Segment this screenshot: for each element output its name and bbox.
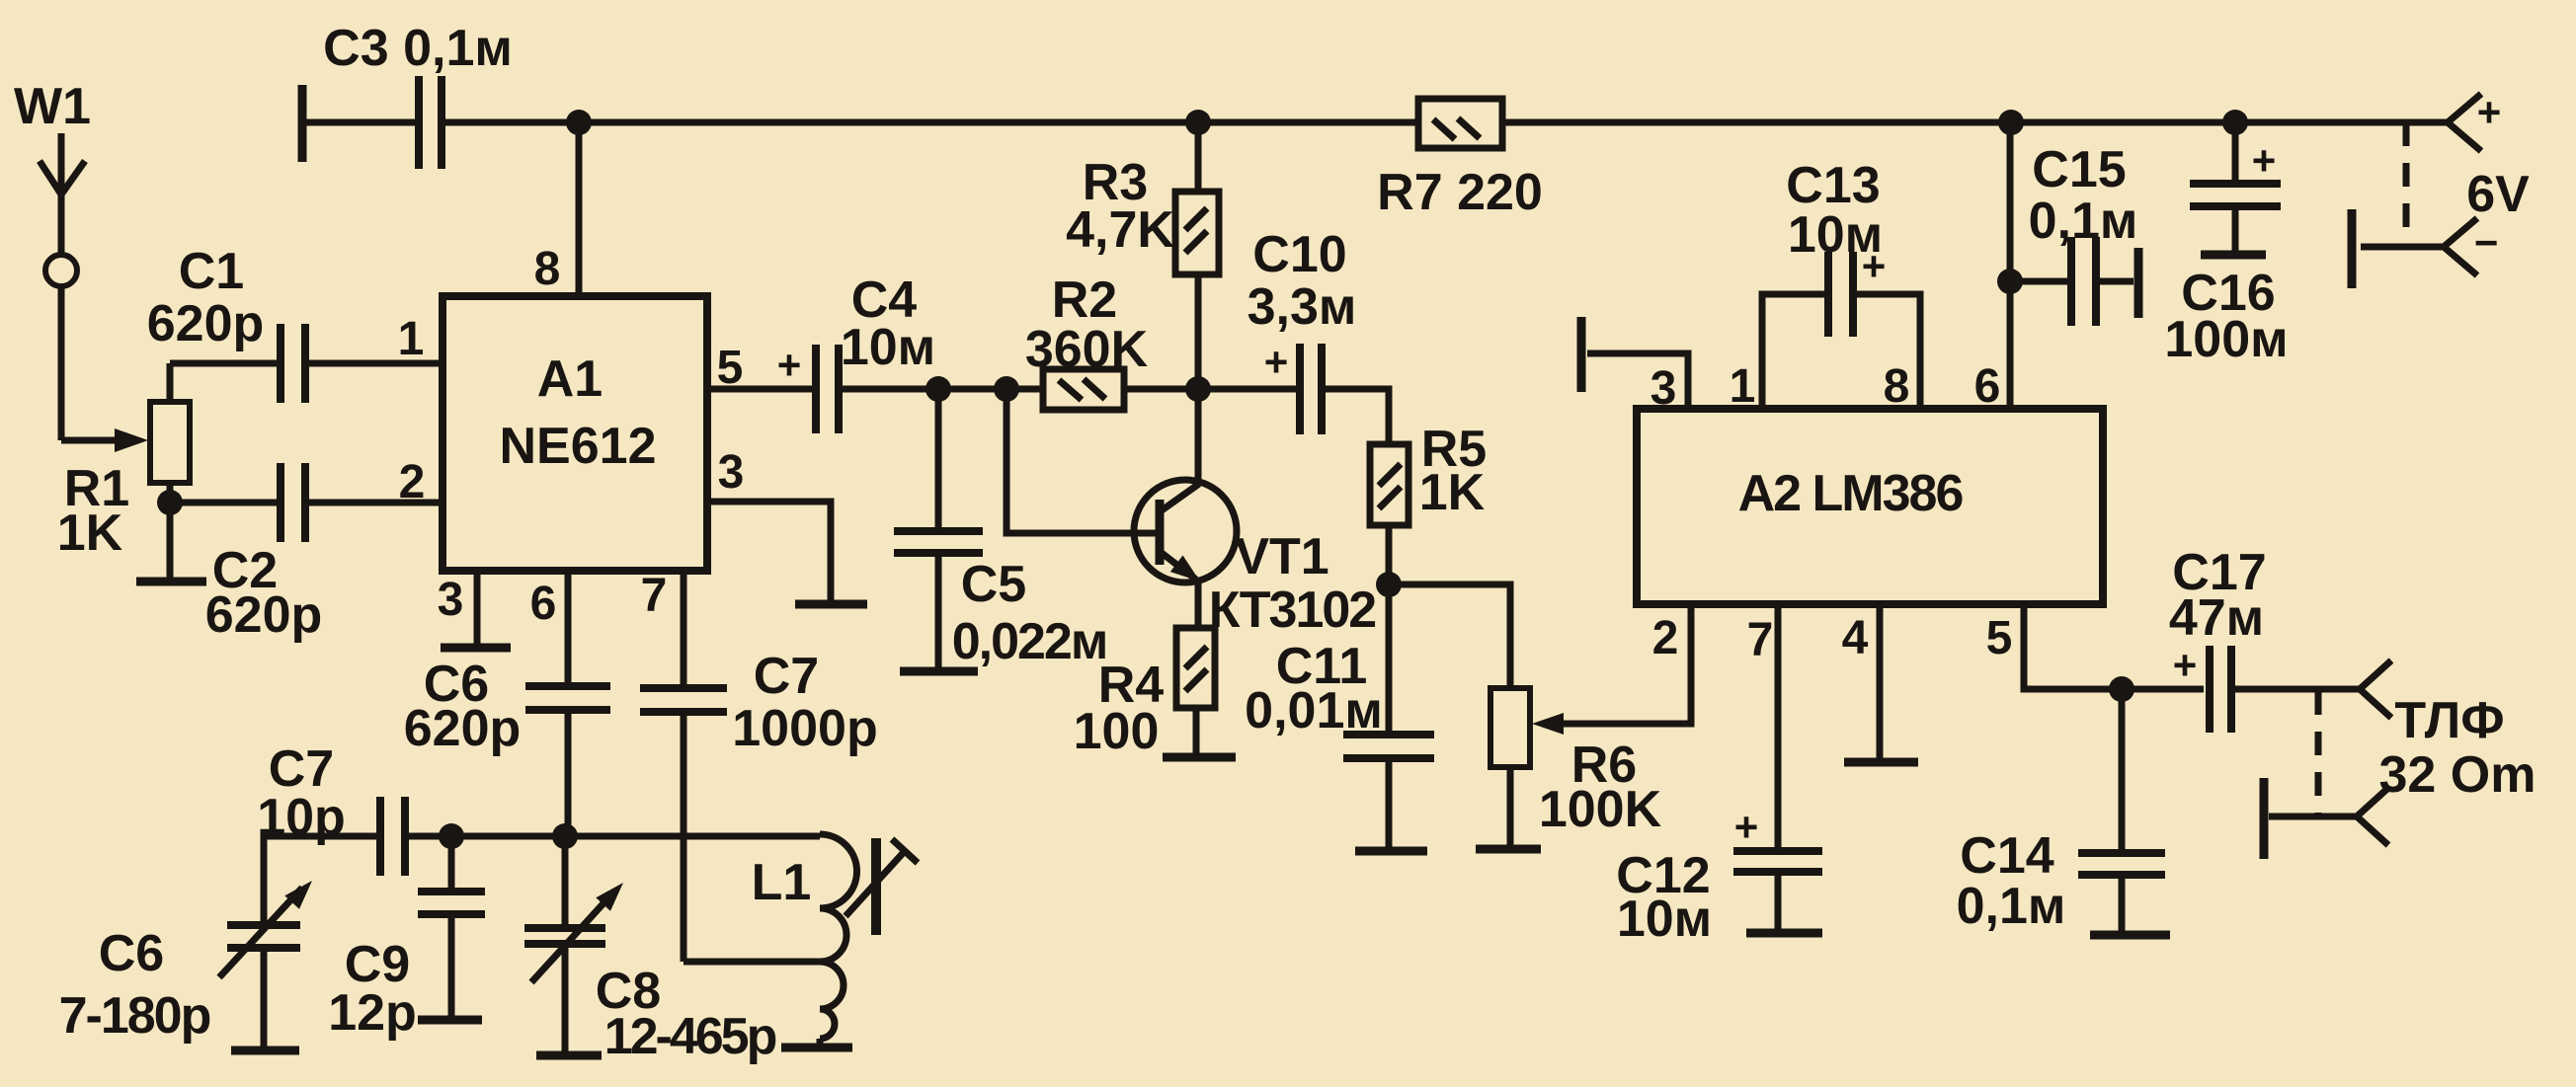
wire base branch <box>1006 389 1158 533</box>
wire C4 to R2 <box>841 386 1043 393</box>
ground (C8) <box>536 1051 602 1060</box>
svg-text:620p: 620p <box>147 295 265 352</box>
label C16 100м <box>2164 265 2288 368</box>
svg-text:32 Om: 32 Om <box>2379 746 2536 804</box>
ground (R1/C2) <box>136 578 206 586</box>
svg-text:2: 2 <box>1652 612 1679 664</box>
wire C13 to pin8 <box>1855 294 1920 409</box>
svg-text:+: + <box>2477 89 2502 135</box>
ground (C5) <box>900 667 978 676</box>
node C5 junction <box>926 376 951 402</box>
ground (R4) <box>1163 753 1236 762</box>
svg-text:5: 5 <box>1986 612 2013 664</box>
label C17 47м <box>2169 544 2267 647</box>
pin 8 number <box>534 243 561 295</box>
L1 adjustable core <box>845 838 918 935</box>
svg-text:0,022м: 0,022м <box>952 613 1107 670</box>
svg-text:+: + <box>2173 642 2198 688</box>
label A1 <box>537 350 603 408</box>
wire C7-1000p down to tap <box>681 716 687 962</box>
svg-text:+: + <box>1264 339 1289 385</box>
wire pin7 to C12 <box>1775 604 1782 847</box>
ground (battery minus bar) <box>2348 209 2357 288</box>
wire C10 to R5 <box>1324 389 1389 444</box>
wire node to C17 <box>2122 686 2204 693</box>
svg-text:+: + <box>777 342 802 388</box>
pin 2 number (A2) <box>1652 612 1679 664</box>
svg-text:3: 3 <box>718 446 745 499</box>
ground (pin3 right) <box>795 600 867 609</box>
capacitor C6 620p <box>525 686 610 710</box>
ground (pin3 bottom) <box>441 644 511 653</box>
svg-text:3: 3 <box>438 574 464 626</box>
wire C2 to pin2 <box>307 500 443 506</box>
label C10 3,3м <box>1248 226 1357 336</box>
pin 1 number (A2) <box>1730 360 1756 413</box>
variable capacitor C8 12-465p <box>524 836 623 1051</box>
wire L1 tap <box>684 959 820 966</box>
svg-text:1K: 1K <box>1419 464 1486 521</box>
ground (C6 7-180p) <box>231 1047 299 1055</box>
connector +6V pin <box>2448 89 2501 151</box>
wire R4 to ground <box>1193 708 1200 753</box>
node pin5/C14 <box>2109 676 2134 702</box>
wire pin1 to C13 <box>1762 294 1826 409</box>
svg-text:1000p: 1000p <box>732 700 877 757</box>
svg-text:620p: 620p <box>404 700 522 757</box>
connector -6V pin <box>2361 218 2498 275</box>
wire C16 to ground <box>2232 208 2239 251</box>
pin 6 number <box>530 578 557 630</box>
svg-text:A1: A1 <box>537 350 603 408</box>
ground (C14) <box>2090 931 2170 940</box>
wire pin6 to bus <box>2007 122 2014 409</box>
wire R3 to collector node <box>1195 274 1202 389</box>
capacitor C10 3,3м <box>1264 339 1322 434</box>
wire node to C15 <box>2010 278 2069 285</box>
pin 3 number (A2) <box>1650 362 1677 415</box>
capacitor C1 <box>281 324 305 403</box>
label A2 LM386 <box>1738 465 1964 522</box>
pin 3 number (right) <box>718 446 745 499</box>
svg-text:7: 7 <box>641 570 668 622</box>
wire C1 to pin1 <box>307 360 443 367</box>
label R1 1K <box>57 460 129 562</box>
svg-text:8: 8 <box>534 243 561 295</box>
ground (pin3 A2, rotated bar) <box>1577 317 1586 392</box>
capacitor C15 0,1м <box>2071 237 2096 326</box>
wire gnd to C3 <box>302 119 417 126</box>
svg-text:10p: 10p <box>257 789 346 846</box>
capacitor C5 0,022м <box>894 531 983 553</box>
node base junction <box>994 376 1019 402</box>
wire dashed TLF outline <box>2315 691 2322 816</box>
node C8 junction <box>552 823 578 849</box>
wire R1-bottom to C2 <box>170 500 279 506</box>
transistor VT1 <box>1134 480 1237 582</box>
label C3 0,1м <box>323 20 513 77</box>
label NE612 <box>500 418 657 475</box>
wire R2 to C10 <box>1124 386 1298 393</box>
wire emitter to R4 <box>1195 581 1202 628</box>
pin 4 number (A2) <box>1842 612 1869 664</box>
wire C14 to ground <box>2119 877 2126 931</box>
node R1-bottom junction <box>157 490 183 515</box>
svg-text:W1: W1 <box>14 78 91 135</box>
svg-text:R7 220: R7 220 <box>1377 164 1543 221</box>
svg-text:10м: 10м <box>1788 206 1883 264</box>
svg-text:0,1м: 0,1м <box>1957 878 2066 935</box>
node bus/C16 <box>2222 110 2248 135</box>
label C15 0,1м <box>2029 141 2138 250</box>
wire dashed connector outline <box>2403 122 2410 247</box>
wire R5 to node <box>1386 525 1393 584</box>
svg-text:6: 6 <box>530 578 557 630</box>
svg-text:NE612: NE612 <box>500 418 657 475</box>
wire pin5 to C4 <box>707 386 814 393</box>
svg-text:−: − <box>2474 219 2499 266</box>
wire node to R6 <box>1389 584 1510 688</box>
capacitor C11 0,01м <box>1343 735 1434 758</box>
label C13 10м <box>1786 157 1883 264</box>
label R2 360K <box>1025 272 1149 378</box>
svg-text:10м: 10м <box>841 319 935 376</box>
capacitor C4 10м <box>777 342 839 433</box>
svg-text:ТЛФ: ТЛФ <box>2394 692 2504 749</box>
svg-text:100м: 100м <box>2164 311 2288 368</box>
ground (R6) <box>1476 845 1541 854</box>
wire osc horizontal <box>405 833 820 840</box>
wire pin3-right to ground <box>707 502 831 600</box>
svg-text:0,01м: 0,01м <box>1245 682 1383 739</box>
label C1 620p <box>147 243 265 352</box>
svg-text:C3 0,1м: C3 0,1м <box>323 20 513 77</box>
capacitor C14 0,1м <box>2078 853 2165 875</box>
svg-text:C6: C6 <box>99 925 164 982</box>
pin 1 number <box>398 313 425 365</box>
wire C17 to TLF <box>2233 686 2360 693</box>
wire R6 wiper to pin2 <box>1564 604 1691 724</box>
resistor R3 <box>1175 192 1219 274</box>
op-amp/mixer IC A1 NE612 box <box>443 296 707 571</box>
svg-text:C15: C15 <box>2032 141 2126 198</box>
svg-text:VT1: VT1 <box>1235 528 1328 585</box>
ground (TLF bar) <box>2260 778 2269 859</box>
svg-text:+: + <box>1734 804 1759 850</box>
wire node to C14 <box>2119 689 2126 849</box>
capacitor C12 10м <box>1733 804 1822 872</box>
wire R1 to ground <box>167 503 174 578</box>
svg-text:C5: C5 <box>961 556 1026 613</box>
label C2 620p <box>205 542 323 644</box>
pin 2 number <box>399 456 426 508</box>
svg-text:C10: C10 <box>1252 226 1346 283</box>
label C4 10м <box>841 272 935 376</box>
wire C6 to osc node <box>565 714 572 836</box>
svg-text:0,1м: 0,1м <box>2029 193 2138 250</box>
svg-text:1K: 1K <box>57 505 123 562</box>
svg-text:8: 8 <box>1884 360 1910 413</box>
pin 8 number (A2) <box>1884 360 1910 413</box>
capacitor C9 12p <box>418 836 485 1016</box>
svg-text:A2 LM386: A2 LM386 <box>1738 465 1964 522</box>
node bus/R3 <box>1185 110 1211 135</box>
node C9 junction <box>439 823 464 849</box>
resistor R2 <box>1043 369 1124 410</box>
svg-text:L1: L1 <box>752 854 812 911</box>
capacitor C16 100м <box>2190 137 2281 206</box>
wire pin6 to C6 <box>565 571 572 682</box>
svg-text:3,3м: 3,3м <box>1248 278 1357 336</box>
pin 5 number (A2) <box>1986 612 2013 664</box>
svg-text:620p: 620p <box>205 586 323 644</box>
svg-text:6V: 6V <box>2466 166 2530 223</box>
label R4 100 <box>1074 657 1165 760</box>
potentiometer R1 <box>115 363 190 503</box>
ground (C3 left, rotated bar) <box>298 85 307 162</box>
wire C7-10p left corner <box>264 836 378 921</box>
label L1 <box>752 854 812 911</box>
svg-text:4: 4 <box>1842 612 1869 664</box>
svg-text:360K: 360K <box>1025 321 1149 378</box>
capacitor C7 1000p <box>640 688 727 712</box>
ground (C12) <box>1746 929 1822 938</box>
wire node to C11 <box>1386 584 1393 731</box>
resistor R4 <box>1176 628 1215 708</box>
connector TLF top pin <box>2360 660 2391 718</box>
svg-text:6: 6 <box>1974 360 2001 413</box>
inductor L1 <box>820 834 857 1039</box>
label R7 220 <box>1377 164 1543 221</box>
wire C12 to ground <box>1775 874 1782 929</box>
pin 5 number <box>717 342 744 394</box>
wire R1-top to C1 <box>170 360 279 367</box>
wire pin5 A2 <box>2024 604 2120 689</box>
wire +V bus (C3 to R7) <box>443 119 1418 126</box>
wire pin4 <box>1877 604 1884 758</box>
svg-text:12p: 12p <box>328 984 417 1042</box>
pin 6 number (A2) <box>1974 360 2001 413</box>
ground (C11) <box>1355 847 1427 856</box>
resistor R7 <box>1418 99 1502 148</box>
capacitor C17 47м <box>2173 642 2231 733</box>
svg-text:КТ3102: КТ3102 <box>1209 582 1376 639</box>
antenna W1 <box>14 78 122 440</box>
svg-text:12-465p: 12-465p <box>604 1008 776 1065</box>
potentiometer R6 <box>1490 688 1564 767</box>
label C7 1000p <box>732 648 877 757</box>
wire pin7 to C7 <box>681 571 687 684</box>
wire pin8 from bus <box>576 122 583 296</box>
svg-text:3: 3 <box>1650 362 1677 415</box>
svg-text:7: 7 <box>1747 614 1774 666</box>
svg-text:+: + <box>2252 137 2277 184</box>
node R5/C11/R6 <box>1376 572 1402 597</box>
wire bus to R3 <box>1195 122 1202 192</box>
pin 7 number (A2) <box>1747 614 1774 666</box>
svg-text:7-180p: 7-180p <box>59 987 210 1045</box>
wire collector <box>1195 389 1202 485</box>
label C7 10p <box>257 740 346 846</box>
svg-text:1: 1 <box>1730 360 1756 413</box>
svg-text:100: 100 <box>1074 703 1160 760</box>
node pin6/C15 <box>1997 269 2023 294</box>
label VT1 KT3102 <box>1209 528 1376 639</box>
ground (L1 bottom) <box>781 1039 852 1048</box>
wire pin3-bottom <box>474 571 481 644</box>
node collector junction <box>1185 376 1211 402</box>
svg-text:C14: C14 <box>1960 827 2053 885</box>
node bus/pin8 <box>566 110 592 135</box>
capacitor C13 10м <box>1828 243 1886 337</box>
label TLF 32 Om <box>2379 692 2536 804</box>
wire C15 to bar <box>2098 278 2133 285</box>
ground (C16) <box>2201 251 2266 260</box>
svg-text:4,7K: 4,7K <box>1066 201 1174 259</box>
resistor R5 <box>1370 444 1409 525</box>
wire junction to C5 <box>935 389 942 527</box>
label C12 10м <box>1616 847 1712 948</box>
label C11 0,01м <box>1245 638 1383 739</box>
label C6 7-180p <box>59 925 210 1045</box>
label C14 0,1м <box>1957 827 2066 935</box>
connector TLF bottom pin <box>2269 788 2388 845</box>
capacitor C7 10p <box>380 797 405 876</box>
label C8 12-465p <box>596 963 776 1065</box>
svg-text:1: 1 <box>398 313 425 365</box>
svg-text:C1: C1 <box>179 243 244 300</box>
wire R6 to ground <box>1507 767 1514 845</box>
label R3 4,7K <box>1066 154 1174 259</box>
wire C11 to ground <box>1386 762 1393 847</box>
node bus/pin6 <box>1998 110 2024 135</box>
ground (C15, rotated bar) <box>2134 248 2143 318</box>
pin 7 number <box>641 570 668 622</box>
svg-text:C7: C7 <box>754 648 819 705</box>
label R6 100K <box>1539 737 1662 838</box>
label C6 620p <box>404 656 522 757</box>
svg-text:10м: 10м <box>1617 891 1712 948</box>
svg-text:47м: 47м <box>2169 589 2264 647</box>
amplifier IC A2 LM386 box <box>1637 409 2103 604</box>
wire pin3 A2 <box>1587 353 1688 409</box>
label R5 1K <box>1419 421 1487 521</box>
ground (pin4 A2) <box>1844 758 1918 767</box>
svg-text:100K: 100K <box>1539 781 1662 838</box>
wire C5 to ground <box>935 555 942 667</box>
pin 3 number (bottom) <box>438 574 464 626</box>
label C5 0,022м <box>952 556 1107 670</box>
label 6V <box>2466 166 2530 223</box>
wire bus to C16 <box>2232 122 2239 180</box>
wire +V bus (R7 to +6V) <box>1502 119 2448 126</box>
label C9 12p <box>328 936 417 1042</box>
capacitor C2 <box>281 463 305 542</box>
variable capacitor C6 7-180p <box>219 881 312 1047</box>
svg-text:2: 2 <box>399 456 426 508</box>
ground (C9) <box>418 1016 482 1025</box>
capacitor C3 <box>419 76 442 169</box>
